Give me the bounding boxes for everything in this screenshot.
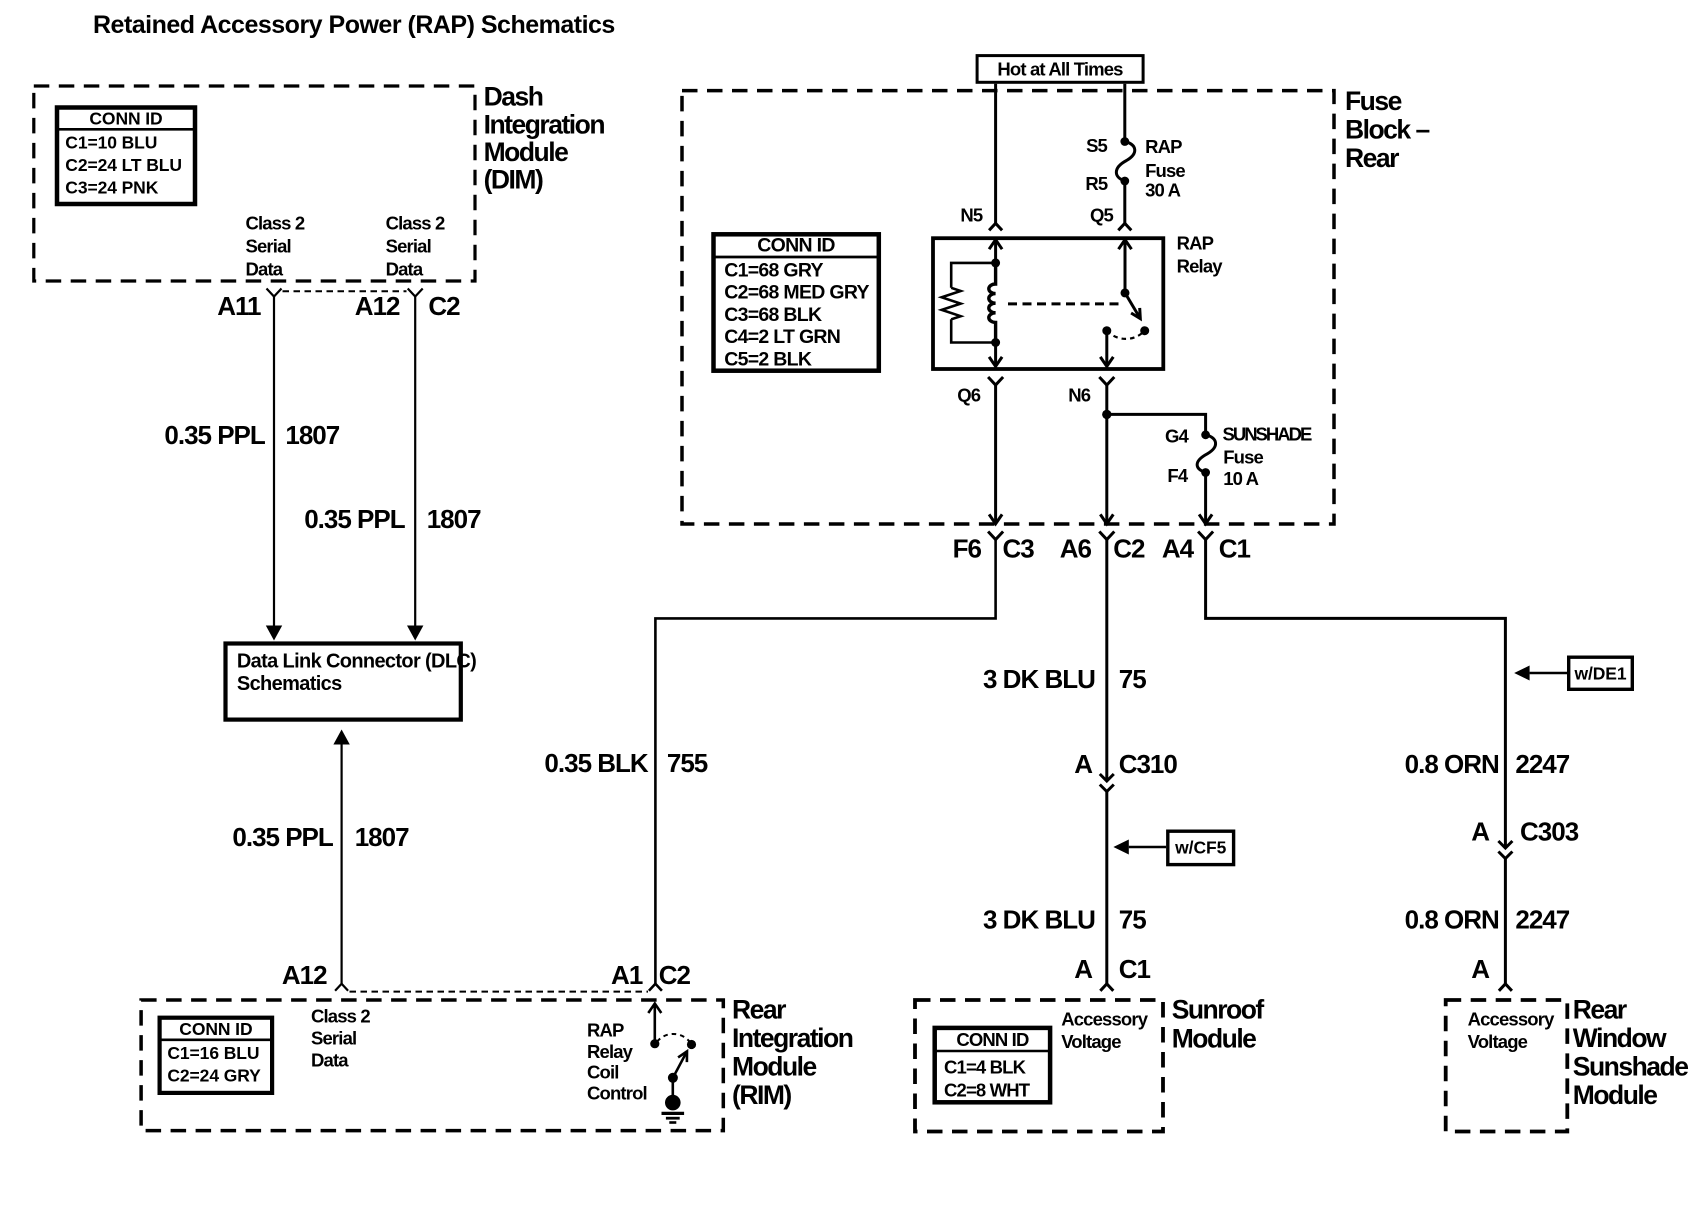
w/DE1 pointer — [1514, 657, 1632, 689]
svg-text:SUNSHADE: SUNSHADE — [1223, 423, 1312, 444]
connector A4/C1 — [1198, 532, 1213, 540]
relay junction dot top — [991, 258, 1000, 267]
svg-text:A: A — [1074, 954, 1093, 984]
connector N6 — [1099, 377, 1114, 385]
svg-text:C1=4 BLK: C1=4 BLK — [944, 1057, 1027, 1078]
svg-text:A4: A4 — [1162, 534, 1195, 564]
svg-text:Data: Data — [311, 1050, 349, 1071]
svg-text:C3=68 BLK: C3=68 BLK — [724, 304, 822, 326]
svg-text:Coil: Coil — [587, 1062, 619, 1083]
svg-text:CONN ID: CONN ID — [179, 1019, 252, 1039]
svg-text:Hot at All Times: Hot at All Times — [997, 58, 1123, 79]
wire N6 down — [1105, 385, 1108, 524]
svg-text:Sunroof: Sunroof — [1172, 995, 1265, 1025]
Hot at All Times box — [977, 56, 1143, 83]
svg-text:75: 75 — [1119, 905, 1146, 935]
relay switch feed arrow (up, right) — [1119, 240, 1132, 250]
svg-text:G4: G4 — [1165, 425, 1190, 446]
svg-text:C2=24 LT BLU: C2=24 LT BLU — [65, 155, 182, 175]
CONN ID table (RIM) — [160, 1018, 273, 1093]
svg-text:C1=68 GRY: C1=68 GRY — [724, 259, 823, 281]
svg-text:w/DE1: w/DE1 — [1573, 664, 1626, 684]
svg-text:Window: Window — [1573, 1023, 1667, 1053]
RIM switch lower junction dot — [668, 1073, 678, 1083]
wire R5 to Q5 — [1123, 181, 1126, 223]
svg-text:Module: Module — [484, 137, 568, 167]
svg-text:A: A — [1471, 816, 1490, 846]
svg-text:A6: A6 — [1060, 534, 1092, 564]
connector A12 (RIM pin) — [335, 984, 348, 991]
relay junction dot bottom — [991, 338, 1000, 347]
svg-text:0.35 PPL: 0.35 PPL — [304, 504, 406, 534]
svg-text:CONN ID: CONN ID — [89, 109, 162, 129]
svg-text:A12: A12 — [355, 291, 400, 321]
svg-text:CONN ID: CONN ID — [956, 1029, 1029, 1050]
connector A C1 (sunroof) — [1100, 984, 1113, 991]
connector A C310 (in-line) — [1100, 774, 1114, 781]
svg-text:30 A: 30 A — [1145, 180, 1180, 201]
RIM switch pivot dot — [650, 1039, 659, 1048]
svg-text:Retained Accessory Power (RAP): Retained Accessory Power (RAP) Schematic… — [93, 11, 615, 39]
svg-text:Serial: Serial — [311, 1028, 356, 1049]
relay switch out arrow (down) — [1105, 331, 1108, 367]
svg-text:Serial: Serial — [246, 236, 291, 257]
svg-text:Rear: Rear — [732, 995, 786, 1025]
svg-text:A12: A12 — [282, 960, 327, 990]
svg-text:C5=2 BLK: C5=2 BLK — [724, 349, 812, 371]
connector F6/C3 — [988, 532, 1003, 540]
svg-text:Block –: Block – — [1345, 115, 1430, 145]
svg-text:Module: Module — [732, 1052, 816, 1082]
svg-text:CONN ID: CONN ID — [757, 234, 835, 256]
wire hot to N5 — [994, 84, 997, 224]
svg-text:Sunshade: Sunshade — [1573, 1052, 1688, 1082]
svg-text:Relay: Relay — [587, 1041, 634, 1062]
svg-text:N6: N6 — [1068, 385, 1091, 406]
svg-text:S5: S5 — [1086, 135, 1107, 156]
svg-text:C1=16 BLU: C1=16 BLU — [167, 1043, 259, 1063]
svg-text:(RIM): (RIM) — [732, 1080, 791, 1110]
junction dot N6 branch — [1102, 410, 1111, 419]
svg-text:N5: N5 — [960, 204, 983, 225]
svg-text:F6: F6 — [953, 534, 982, 564]
module box Sunroof — [915, 1000, 1163, 1132]
svg-text:C303: C303 — [1520, 816, 1579, 846]
connector A (sunshade) — [1499, 984, 1512, 991]
svg-text:C310: C310 — [1119, 749, 1178, 779]
RIM switch dashed arc — [657, 1034, 692, 1045]
svg-text:RAP: RAP — [1145, 136, 1182, 157]
connector A12/C2 (DIM pin) — [408, 289, 423, 297]
svg-text:Class 2: Class 2 — [246, 213, 305, 234]
svg-text:1807: 1807 — [355, 822, 409, 852]
inductor coil (relay) — [989, 263, 996, 343]
svg-text:R5: R5 — [1085, 173, 1108, 194]
svg-text:Control: Control — [587, 1082, 647, 1103]
svg-text:Q6: Q6 — [957, 385, 981, 406]
svg-text:(DIM): (DIM) — [484, 165, 543, 195]
svg-text:C2: C2 — [1113, 534, 1145, 564]
svg-text:A: A — [1471, 954, 1490, 984]
svg-text:2247: 2247 — [1515, 749, 1569, 779]
svg-text:Integration: Integration — [484, 110, 605, 140]
wire Q6 down — [994, 385, 997, 524]
svg-text:Relay: Relay — [1177, 256, 1224, 277]
relay contact dot right — [1140, 326, 1149, 335]
RIM switch blade with arrow — [673, 1051, 687, 1078]
fuse SUNSHADE 10A — [1201, 430, 1210, 439]
svg-text:Rear: Rear — [1345, 143, 1399, 173]
RIM switch up arrow — [648, 1004, 661, 1014]
svg-text:Serial: Serial — [386, 236, 431, 257]
connector in-line dashed link A11-A12 — [283, 290, 407, 292]
CONN ID table (fuse block) — [714, 234, 879, 370]
svg-text:A: A — [1074, 749, 1093, 779]
ground — [662, 1095, 685, 1123]
svg-text:C2=68 MED GRY: C2=68 MED GRY — [724, 282, 869, 304]
module box RIM — [141, 1000, 723, 1131]
wire F6/C3 to RIM A1 — [655, 540, 995, 984]
svg-text:C2: C2 — [428, 291, 460, 321]
wire A6/C2 down (lower) — [1105, 792, 1108, 984]
svg-text:Data Link Connector (DLC): Data Link Connector (DLC) — [237, 651, 476, 673]
svg-text:RAP: RAP — [587, 1020, 624, 1041]
wire F4 down — [1204, 473, 1207, 524]
module box Sunshade — [1446, 1000, 1568, 1132]
svg-text:C3=24 PNK: C3=24 PNK — [65, 178, 158, 198]
arrow into DLC (left) — [266, 626, 282, 641]
connector A6/C2 — [1099, 532, 1114, 540]
relay coil out arrow (down) — [994, 343, 997, 367]
svg-text:Class 2: Class 2 — [311, 1006, 370, 1027]
svg-text:Schematics: Schematics — [237, 673, 342, 695]
relay switch blade with arrow — [1125, 293, 1140, 319]
connector Q5 — [1118, 223, 1131, 230]
svg-text:Integration: Integration — [732, 1023, 853, 1053]
svg-text:Dash: Dash — [484, 82, 543, 112]
w/CF5 pointer — [1113, 831, 1233, 864]
RIM switch contact dot — [687, 1040, 696, 1049]
svg-text:Accessory: Accessory — [1061, 1008, 1149, 1029]
wire A11 to DLC — [273, 297, 275, 627]
svg-text:RAP: RAP — [1177, 233, 1214, 254]
svg-text:Rear: Rear — [1573, 995, 1627, 1025]
svg-text:Data: Data — [246, 259, 284, 280]
svg-text:C2=24 GRY: C2=24 GRY — [167, 1066, 261, 1086]
wire hot to S5 — [1123, 84, 1126, 142]
svg-text:Fuse: Fuse — [1223, 447, 1263, 468]
svg-text:755: 755 — [667, 748, 708, 778]
module box DIM — [34, 86, 475, 281]
wire A4/C1 down (lower) — [1504, 859, 1507, 984]
arrow up into DLC from RIM — [333, 730, 349, 745]
connector Q6 — [988, 377, 1003, 385]
svg-text:3 DK BLU: 3 DK BLU — [983, 905, 1095, 935]
arrow into DLC (right) — [407, 626, 423, 641]
svg-text:Data: Data — [386, 259, 424, 280]
arrow at fuse block exit (Q6) — [989, 514, 1002, 524]
svg-text:3 DK BLU: 3 DK BLU — [983, 664, 1095, 694]
relay coil feed arrow (up, left) — [989, 240, 1002, 250]
svg-text:Q5: Q5 — [1090, 204, 1114, 225]
wire A4/C1 right and down — [1206, 540, 1506, 849]
svg-text:Class 2: Class 2 — [386, 213, 445, 234]
CONN ID table (sunroof) — [935, 1028, 1051, 1102]
svg-text:Voltage: Voltage — [1061, 1031, 1121, 1052]
connector A C303 (in-line) — [1498, 841, 1512, 848]
svg-text:0.35 PPL: 0.35 PPL — [232, 822, 334, 852]
wire RIM A12 to DLC — [341, 745, 343, 984]
svg-text:75: 75 — [1119, 664, 1146, 694]
svg-text:C3: C3 — [1003, 534, 1035, 564]
svg-text:F4: F4 — [1167, 465, 1188, 486]
svg-text:0.35 BLK: 0.35 BLK — [544, 748, 648, 778]
svg-text:C1=10 BLU: C1=10 BLU — [65, 133, 157, 153]
svg-text:C1: C1 — [1219, 534, 1251, 564]
svg-text:Accessory: Accessory — [1468, 1008, 1556, 1029]
connector N5 — [989, 223, 1002, 230]
svg-text:Fuse: Fuse — [1345, 86, 1402, 116]
svg-text:C1: C1 — [1119, 954, 1151, 984]
svg-text:10 A: 10 A — [1223, 468, 1258, 489]
svg-text:Module: Module — [1573, 1080, 1657, 1110]
wire A12 to DLC — [414, 297, 416, 627]
svg-text:A1: A1 — [611, 960, 643, 990]
fuse RAP 30A — [1120, 137, 1129, 146]
svg-text:0.35 PPL: 0.35 PPL — [164, 420, 266, 450]
wire branch to sunshade fuse — [1107, 414, 1206, 434]
connector A1/C2 (RIM pin) — [649, 984, 662, 991]
CONN ID table (DIM) — [57, 108, 195, 205]
relay box RAP Relay — [933, 238, 1163, 369]
svg-text:0.8 ORN: 0.8 ORN — [1405, 905, 1499, 935]
wire to resistor branch — [951, 263, 995, 288]
arrow at fuse block exit (sunshade) — [1199, 514, 1212, 524]
relay switch pivot dot — [1121, 288, 1130, 297]
svg-text:Fuse: Fuse — [1145, 160, 1185, 181]
svg-text:w/CF5: w/CF5 — [1174, 838, 1226, 858]
module box Fuse Block Rear — [682, 91, 1334, 524]
wire A6/C2 down (upper) — [1105, 540, 1108, 782]
connector in-line dashed link A12-A1 — [350, 991, 649, 993]
svg-text:C2=8 WHT: C2=8 WHT — [944, 1080, 1031, 1101]
arrow at fuse block exit (N6) — [1100, 514, 1113, 524]
svg-text:A11: A11 — [217, 291, 261, 321]
svg-text:0.8 ORN: 0.8 ORN — [1405, 749, 1499, 779]
resistor (relay) — [942, 288, 961, 320]
svg-text:1807: 1807 — [285, 420, 339, 450]
svg-text:1807: 1807 — [427, 504, 481, 534]
svg-text:C4=2 LT GRN: C4=2 LT GRN — [724, 326, 840, 348]
svg-text:2247: 2247 — [1515, 905, 1569, 935]
connector A11 (DIM pin) — [267, 289, 282, 297]
svg-text:Voltage: Voltage — [1468, 1031, 1528, 1052]
relay contact dashed arc — [1107, 331, 1145, 339]
DLC box — [226, 644, 461, 720]
svg-text:Module: Module — [1172, 1024, 1256, 1054]
relay contact dot left — [1102, 326, 1111, 335]
svg-text:C2: C2 — [659, 960, 691, 990]
relay control dashed line — [1008, 302, 1122, 305]
wire to ground — [671, 1078, 674, 1098]
